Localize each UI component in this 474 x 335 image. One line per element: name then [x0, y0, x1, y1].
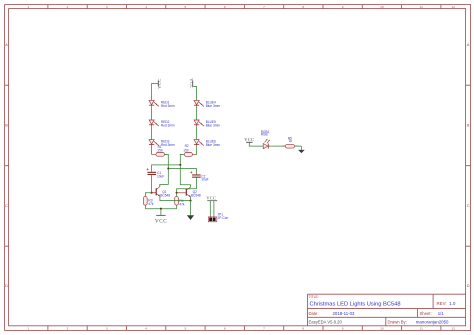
svg-text:8: 8 — [302, 327, 304, 331]
svg-text:D: D — [5, 284, 8, 288]
power flag VCC (RGB branch) — [244, 137, 254, 142]
bottom border ticks — [48, 326, 441, 331]
svg-text:150: 150 — [157, 149, 163, 153]
ground symbol (emitters) — [187, 215, 194, 220]
svg-text:12: 12 — [451, 327, 455, 331]
svg-text:Date:: Date: — [309, 311, 319, 316]
svg-text:9: 9 — [342, 5, 344, 9]
capacitor C1 — [147, 168, 157, 175]
svg-text:2: 2 — [67, 5, 69, 9]
power flag VCC (top of blue LED chain) — [189, 78, 194, 89]
svg-text:5: 5 — [185, 327, 187, 331]
svg-text:10: 10 — [380, 5, 384, 9]
junction node1 — [167, 167, 169, 169]
svg-text:manoranjan2050: manoranjan2050 — [416, 320, 449, 325]
resistor R3 — [143, 196, 147, 205]
svg-text:3: 3 — [106, 5, 108, 9]
svg-text:VCC: VCC — [244, 137, 254, 142]
wire R2 to node2 — [180, 154, 184, 165]
wire node1 to Q1 collector — [160, 169, 169, 187]
wire VCC rail — [145, 208, 176, 210]
svg-text:Blue 3mm: Blue 3mm — [206, 124, 221, 128]
wire rail to VCC flag — [160, 209, 162, 216]
svg-text:1.0: 1.0 — [449, 301, 456, 306]
svg-text:2018-11-03: 2018-11-03 — [333, 311, 355, 316]
resistor R2 — [181, 153, 197, 155]
svg-text:4: 4 — [145, 327, 147, 331]
wire Q2 emitter down — [190, 198, 192, 201]
svg-text:C: C — [5, 204, 8, 208]
svg-text:10: 10 — [380, 327, 384, 331]
LED RED1 — [149, 100, 159, 106]
transistor Q1 — [152, 185, 160, 197]
svg-text:A: A — [5, 43, 8, 47]
svg-text:BC548: BC548 — [191, 194, 201, 198]
svg-text:1: 1 — [27, 5, 29, 9]
svg-text:Blue 3mm: Blue 3mm — [206, 143, 221, 147]
svg-text:150: 150 — [183, 149, 189, 153]
wire BLUE4 to BLUE5 — [196, 107, 198, 120]
wire BLUE5 to BLUE6 — [196, 126, 198, 139]
svg-text:RGB: RGB — [261, 133, 268, 137]
svg-text:2: 2 — [67, 327, 69, 331]
wire node2 to C1 top — [152, 165, 181, 172]
svg-text:12: 12 — [451, 5, 455, 9]
LED RED2 — [149, 120, 159, 126]
wire JP1 pin1 to VCC bar — [209, 201, 211, 216]
svg-text:Sheet:: Sheet: — [420, 311, 432, 316]
power flag VCC (bottom) — [155, 215, 167, 224]
svg-text:VCC: VCC — [206, 196, 216, 201]
wire BLUE6 to R2 — [195, 146, 198, 154]
svg-text:10uF: 10uF — [201, 178, 208, 182]
wire JP1 pin2 to VCC bar — [213, 201, 215, 216]
svg-text:8: 8 — [302, 5, 304, 9]
wire node2 to Q2 collector — [180, 165, 190, 187]
LED BLUE4 — [194, 100, 204, 106]
svg-text:10uF: 10uF — [157, 175, 164, 179]
svg-text:3: 3 — [106, 327, 108, 331]
wire R3 to VCC rail — [144, 205, 146, 209]
svg-text:Drawn By:: Drawn By: — [388, 320, 407, 325]
svg-text:11: 11 — [420, 5, 423, 9]
resistor R1 — [152, 153, 168, 155]
wire Q1 base to R3 — [145, 193, 151, 197]
power flag VCC (top of red LED chain) — [157, 78, 162, 89]
svg-text:Red 3mm: Red 3mm — [161, 143, 175, 147]
svg-text:47k: 47k — [148, 202, 154, 206]
wire RGB1 to R5 — [269, 145, 286, 147]
svg-text:Christmas LED Lights Using BC5: Christmas LED Lights Using BC548 — [310, 301, 401, 307]
svg-text:5: 5 — [185, 5, 187, 9]
junction Q1 base — [151, 192, 153, 194]
wire R4 to VCC rail — [176, 205, 178, 209]
wire R5 to ground — [295, 145, 302, 147]
wire from VCC to red LED chain — [152, 84, 159, 101]
connector JP1 — [208, 217, 217, 222]
wire from VCC to blue LED chain — [193, 87, 197, 101]
wire RED1 to RED2 — [151, 107, 153, 120]
svg-text:1: 1 — [27, 327, 29, 331]
svg-text:1k: 1k — [289, 139, 293, 143]
svg-text:BC548: BC548 — [160, 193, 170, 197]
svg-text:47k: 47k — [179, 203, 185, 207]
ground symbol (RGB branch) — [298, 146, 305, 153]
svg-text:Red 3mm: Red 3mm — [161, 104, 175, 108]
junction node2 — [179, 164, 181, 166]
wire R4 top to Q2 base — [176, 193, 178, 197]
svg-text:11: 11 — [420, 327, 423, 331]
wire node1 to C2 top — [168, 169, 196, 175]
svg-text:2P-Con: 2P-Con — [218, 216, 229, 220]
left border ticks — [5, 85, 9, 246]
title block outline — [308, 294, 466, 326]
svg-text:Blue 3mm: Blue 3mm — [206, 104, 221, 108]
capacitor C2 — [190, 171, 201, 177]
LED RED3 — [149, 140, 159, 146]
svg-text:6: 6 — [224, 5, 226, 9]
svg-text:TITLE:: TITLE: — [309, 295, 319, 299]
junction emitter ground node — [189, 200, 191, 202]
svg-text:B: B — [5, 124, 8, 128]
wire C2 bottom to Q2 base — [177, 178, 197, 193]
svg-text:4: 4 — [145, 5, 147, 9]
left border row letters — [5, 43, 8, 288]
junction VCC rail — [160, 208, 162, 210]
LED BLUE6 — [194, 140, 204, 146]
wire R1 to node1 — [165, 154, 169, 168]
junction Q2 base — [176, 192, 178, 194]
bottom border column numbers — [27, 327, 455, 331]
svg-text:R2: R2 — [185, 144, 189, 148]
svg-text:EasyEDA V5.8.20: EasyEDA V5.8.20 — [309, 320, 343, 325]
transistor Q2 — [177, 187, 191, 198]
power flag VCC (above JP1) — [206, 196, 217, 201]
LED RGB1 — [263, 139, 270, 149]
svg-text:1/1: 1/1 — [438, 311, 445, 316]
svg-text:VCC: VCC — [155, 219, 167, 225]
wire RED2 to RED3 — [151, 126, 153, 139]
svg-text:REV:: REV: — [437, 301, 447, 306]
svg-text:D: D — [467, 284, 470, 288]
wire RED3 to R1 — [151, 146, 154, 154]
LED BLUE5 — [194, 120, 204, 126]
top border column numbers — [27, 5, 455, 9]
svg-text:C: C — [467, 204, 470, 208]
right border row letters — [467, 43, 470, 288]
resistor R4 — [175, 196, 179, 205]
resistor R5 — [282, 145, 297, 147]
svg-text:9: 9 — [342, 327, 344, 331]
wire C1 bottom to Q1 base — [151, 175, 153, 193]
right border ticks — [466, 85, 471, 246]
svg-text:VCC: VCC — [189, 78, 194, 89]
svg-text:7: 7 — [263, 327, 265, 331]
top border ticks — [48, 5, 441, 9]
svg-text:6: 6 — [224, 327, 226, 331]
svg-text:Red 3mm: Red 3mm — [161, 124, 175, 128]
wire ground node down — [190, 201, 192, 216]
svg-text:7: 7 — [263, 5, 265, 9]
wire Q1 emitter to ground rail — [160, 198, 191, 201]
wire VCC to RGB1 — [249, 142, 263, 146]
